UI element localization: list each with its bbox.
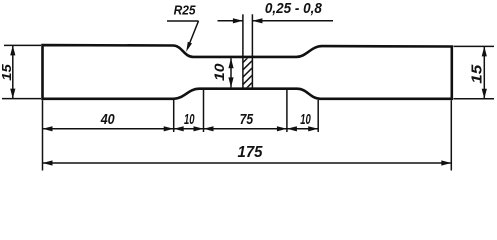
- dimension 10 (right) line with arrows: [287, 126, 318, 131]
- svg-text:10: 10: [300, 112, 311, 128]
- dimension 10 (left) line with arrows: [174, 126, 204, 131]
- extension line at narrow end (x=286.9): [286, 90, 288, 132]
- gauge mark right vertical line: [251, 14, 253, 88]
- svg-text:10: 10: [184, 112, 195, 128]
- label 175: [238, 144, 264, 161]
- label 0,25 - 0,8: [265, 0, 323, 17]
- hatched gauge strip: [240, 50, 256, 103]
- label 40: [100, 112, 115, 128]
- label 10 (rotated, narrow width): [211, 63, 227, 81]
- label R25: [174, 3, 197, 18]
- right edge extension line down: [450, 100, 452, 170]
- svg-text:15: 15: [0, 63, 14, 80]
- gauge mark left vertical line: [242, 14, 244, 88]
- dimension 175 line with arrows: [43, 160, 452, 165]
- left edge extension line down: [42, 100, 44, 170]
- svg-text:15: 15: [469, 64, 485, 84]
- svg-text:40: 40: [100, 112, 115, 128]
- svg-text:75: 75: [240, 112, 254, 128]
- svg-text:R25: R25: [174, 3, 197, 18]
- label 10 (right bottom): [300, 112, 311, 128]
- left 15 dimension: bottom extension line: [2, 98, 41, 100]
- dimension 40 line with arrows: [43, 126, 174, 131]
- extension line at fillet end (x=318.2): [317, 100, 319, 132]
- extension line at narrow start (x=203.5): [203, 90, 205, 132]
- left 15 dimension: top extension line: [4, 44, 41, 46]
- right 15 dimension: top extension line: [454, 45, 495, 47]
- svg-text:10: 10: [211, 63, 227, 81]
- svg-text:175: 175: [238, 144, 264, 161]
- svg-text:0,25 - 0,8: 0,25 - 0,8: [265, 0, 323, 17]
- specimen outline (dog-bone tensile test piece): [43, 45, 452, 99]
- dimension 0,25-0,8: right tail line: [252, 18, 333, 23]
- right 15 dimension line with arrows: [482, 46, 487, 98]
- left 15 dimension line with arrows: [10, 45, 15, 98]
- label 10 (left bottom): [184, 112, 195, 128]
- label 15 (right, rotated): [469, 64, 485, 84]
- R25 leader slant line with arrow: [186, 21, 198, 52]
- dimension 10 (narrow width) vertical line with arrows: [228, 58, 233, 87]
- right 15 dimension: bottom extension line: [454, 98, 495, 100]
- label 15 (left, rotated): [0, 63, 14, 80]
- label 75: [240, 112, 254, 128]
- dimension 75 line with arrows: [204, 126, 287, 131]
- R25 leader shoulder line: [167, 20, 199, 22]
- dimension 0,25-0,8: left tail line: [218, 18, 243, 23]
- extension line at fillet start (x=173.7): [173, 100, 175, 132]
